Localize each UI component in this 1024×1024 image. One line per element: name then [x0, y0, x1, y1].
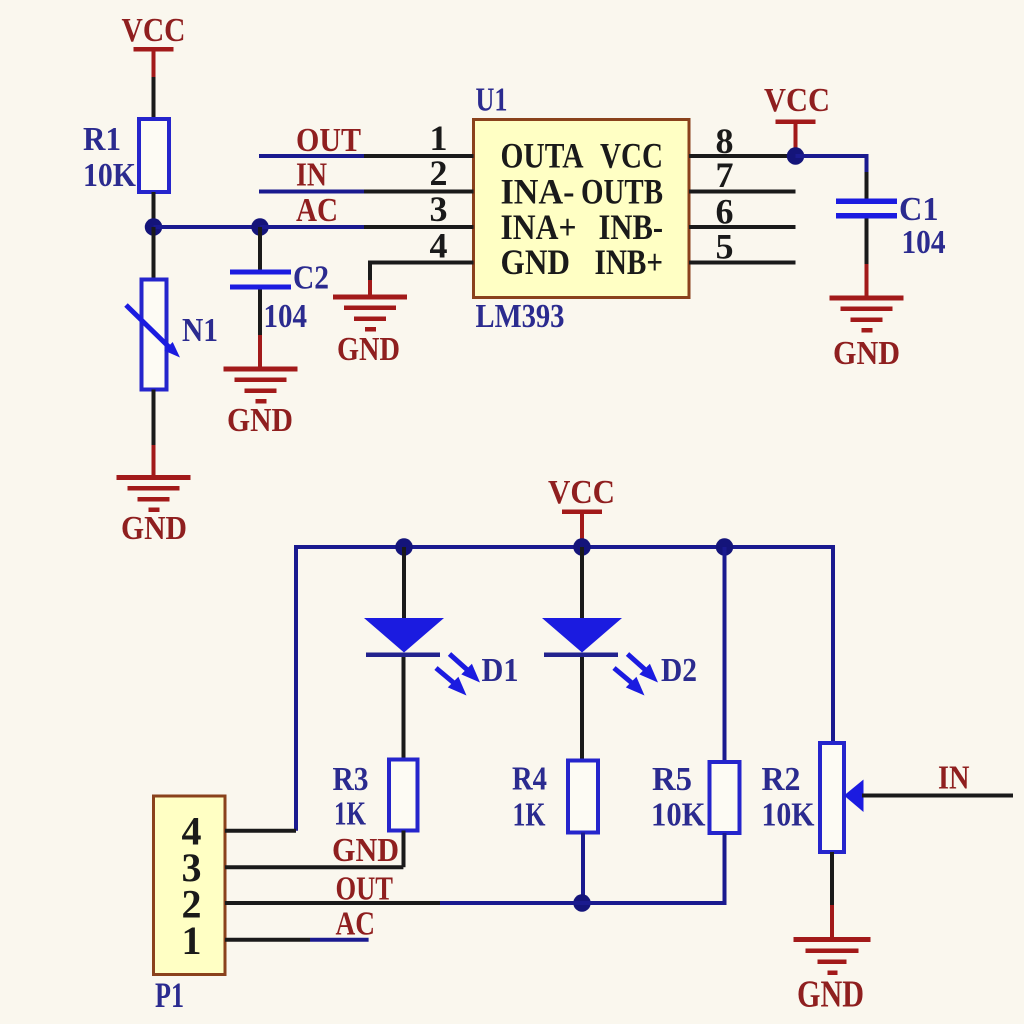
LED D2 [542, 618, 697, 696]
svg-text:GND: GND [501, 242, 571, 282]
wire bus to D2 anode [580, 547, 584, 618]
U1 pin 1 [364, 154, 474, 158]
svg-text:VCC: VCC [600, 136, 663, 176]
wire R3 to P1 pin 3 [402, 831, 406, 868]
ground (below R2) [794, 937, 871, 1016]
wire R5 to bottom bus [723, 833, 727, 905]
svg-text:AC: AC [296, 192, 338, 229]
svg-text:C1: C1 [899, 191, 939, 228]
wire node A down to N1 [152, 227, 156, 280]
wire node A to node B (AC net) [154, 225, 261, 229]
U1 pin 5 [689, 261, 796, 265]
U1 pin 7 [689, 190, 796, 194]
node VCC junction at pin 8 [787, 147, 805, 165]
svg-text:P1: P1 [155, 975, 184, 1015]
wire D2 cathode to R4 [580, 657, 584, 761]
svg-text:104: 104 [902, 224, 946, 261]
P1 pin 3 wire to R3 (GND net) [225, 865, 403, 869]
capacitor C1 [836, 191, 946, 261]
svg-text:1K: 1K [334, 796, 366, 833]
svg-text:GND: GND [332, 832, 399, 869]
ground (below C1) [830, 296, 904, 373]
node bottom bus junction [573, 894, 591, 912]
wire node B down to C2 [258, 227, 262, 270]
wire node B to U1 pin 3 [260, 225, 364, 229]
svg-text:10K: 10K [651, 797, 706, 834]
svg-text:C2: C2 [293, 260, 329, 297]
wire OUT net to U1 pin 1 [259, 154, 364, 158]
svg-text:LM393: LM393 [476, 298, 565, 335]
capacitor C2 [230, 260, 329, 336]
svg-text:GND: GND [227, 402, 293, 439]
wire D1 cathode to R3 [402, 657, 406, 760]
node R5 top junction [716, 538, 734, 556]
P1 pin 1 wire (AC net) [225, 938, 369, 942]
wire bus to D1 anode [402, 547, 406, 618]
svg-text:IN: IN [938, 760, 970, 797]
svg-text:1: 1 [430, 118, 448, 158]
svg-text:R5: R5 [652, 761, 692, 798]
svg-text:N1: N1 [182, 312, 218, 349]
wire pin 8 node to C1 [796, 154, 867, 199]
svg-text:OUTA: OUTA [501, 136, 584, 176]
svg-text:VCC: VCC [122, 12, 186, 49]
node A junction [145, 218, 163, 236]
wire C2 to ground [258, 290, 262, 368]
svg-text:10K: 10K [83, 157, 136, 194]
svg-text:3: 3 [430, 189, 448, 229]
ground (below C2) [224, 367, 298, 440]
resistor R5 [651, 761, 740, 834]
svg-text:GND: GND [833, 335, 900, 372]
wire IN net to U1 pin 2 [259, 190, 364, 194]
svg-text:R4: R4 [512, 761, 547, 798]
P1 pin 4 wire to bus [225, 829, 296, 833]
svg-text:D1: D1 [482, 652, 519, 689]
svg-text:6: 6 [716, 192, 734, 232]
thermistor N1 [126, 280, 218, 390]
node D1 top junction [395, 538, 413, 556]
svg-text:GND: GND [121, 510, 187, 547]
wire left bus vertical [294, 545, 298, 831]
power port VCC (top-left) [122, 12, 186, 77]
power port VCC (bottom section) [548, 474, 615, 543]
svg-text:R2: R2 [762, 761, 801, 798]
wire R2 to ground [830, 852, 834, 939]
potentiometer R2 [762, 743, 864, 852]
connector P1 [154, 796, 226, 1015]
svg-text:IN: IN [296, 157, 327, 194]
U1 pin 2 [364, 190, 474, 194]
svg-text:U1: U1 [476, 82, 508, 119]
svg-text:OUT: OUT [336, 871, 394, 908]
wire R1 to node A [152, 192, 156, 227]
svg-text:AC: AC [336, 906, 376, 943]
wire N1 to ground [152, 390, 156, 478]
node VCC stem junction [573, 538, 591, 556]
svg-text:VCC: VCC [548, 474, 615, 511]
LED D1 [364, 618, 519, 696]
svg-text:104: 104 [264, 298, 308, 335]
U1 pin 6 [689, 225, 796, 229]
resistor R1 [83, 119, 169, 194]
svg-text:R3: R3 [333, 761, 369, 798]
wire top bus [296, 545, 833, 549]
power port VCC (above pin 8) [764, 82, 830, 152]
svg-text:1K: 1K [513, 797, 546, 834]
resistor R3 [333, 760, 418, 833]
svg-text:GND: GND [797, 974, 864, 1016]
wire U1 pin 4 to ground [368, 261, 372, 297]
svg-text:INB+: INB+ [595, 242, 664, 282]
svg-text:D2: D2 [661, 652, 697, 689]
wire R4 to bottom bus [581, 833, 585, 904]
svg-text:10K: 10K [762, 797, 815, 834]
wire IN to R2 wiper [862, 794, 1013, 798]
ground (below N1) [117, 475, 191, 547]
P1 pin 2 wire bottom bus (OUT net) [225, 901, 725, 905]
svg-text:OUT: OUT [296, 122, 361, 159]
svg-text:INA-: INA- [501, 171, 575, 211]
svg-text:7: 7 [716, 155, 734, 195]
node B junction [251, 218, 269, 236]
U1 pin 3 [364, 225, 474, 229]
op-amp U1 LM393 [474, 82, 690, 336]
U1 pin 4 [370, 261, 474, 265]
svg-text:R1: R1 [83, 121, 121, 158]
svg-text:2: 2 [430, 153, 448, 193]
wire bus to R5 top [723, 547, 727, 762]
wire VCC to R1 [152, 77, 156, 120]
svg-text:OUTB: OUTB [581, 171, 663, 211]
resistor R4 [512, 761, 598, 834]
svg-text:VCC: VCC [764, 82, 830, 119]
svg-text:5: 5 [716, 227, 734, 267]
ground (U1 pin 4) [333, 295, 407, 369]
svg-text:1: 1 [182, 918, 202, 963]
svg-text:4: 4 [430, 226, 448, 266]
svg-text:GND: GND [337, 331, 400, 368]
U1 pin 8 [689, 154, 796, 158]
wire right bus vertical to R2 [831, 545, 835, 743]
wire C1 to ground [865, 219, 869, 297]
